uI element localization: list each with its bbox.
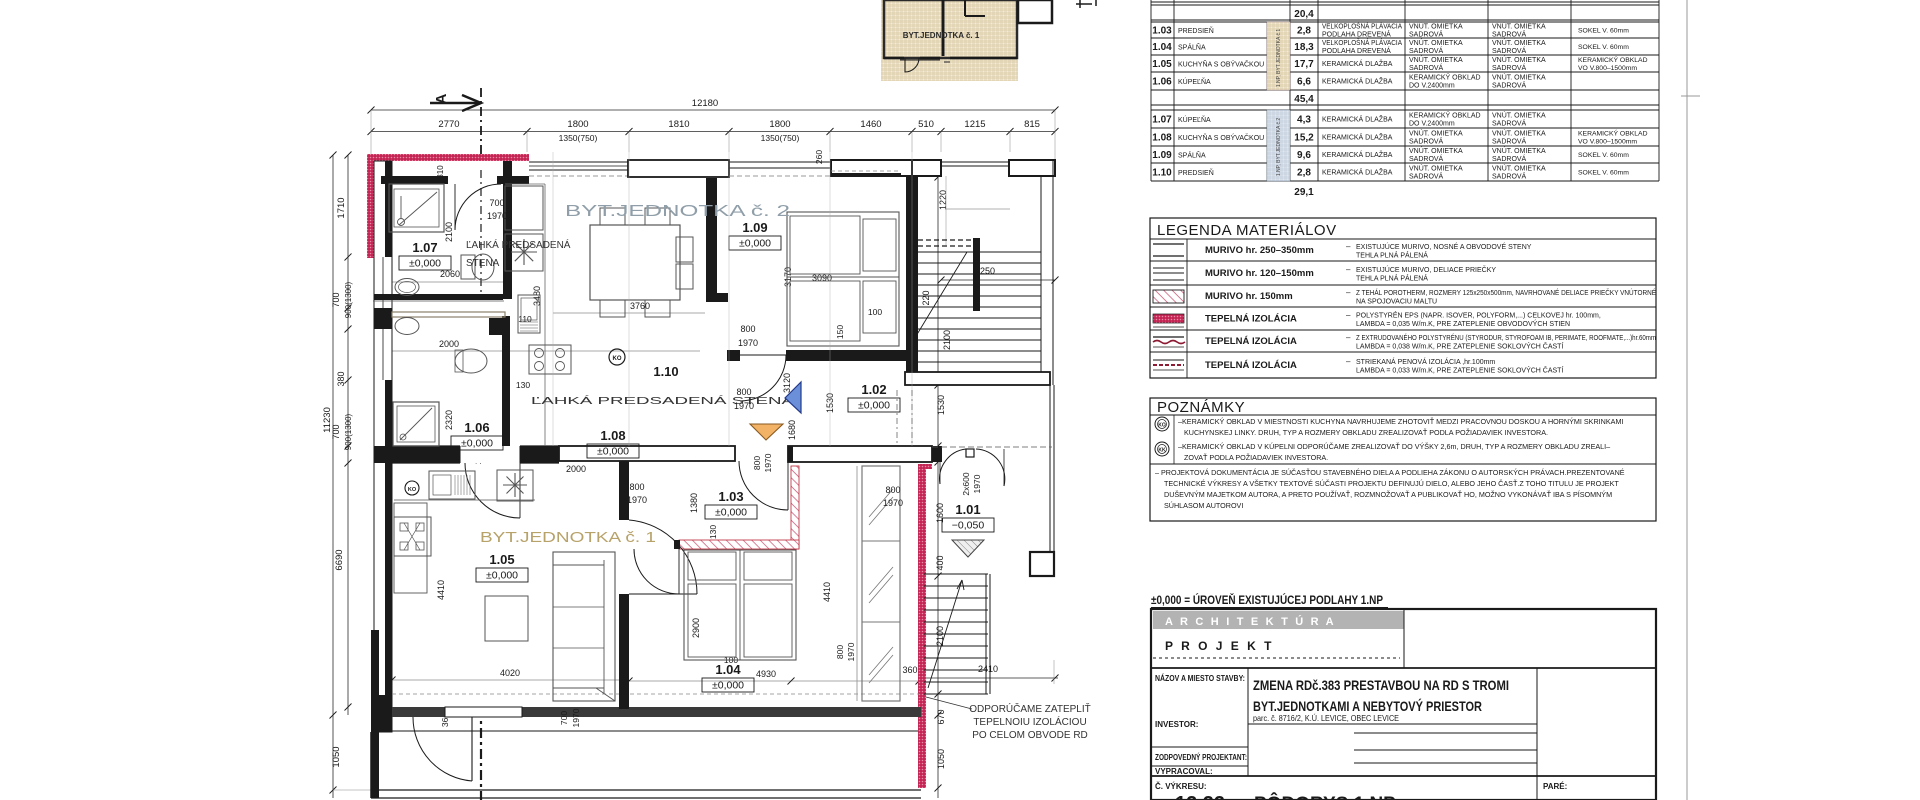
svg-text:510: 510 xyxy=(918,119,934,130)
svg-text:TEPELNÁ IZOLÁCIA: TEPELNÁ IZOLÁCIA xyxy=(1205,314,1297,325)
svg-text:1.07: 1.07 xyxy=(1152,115,1172,126)
svg-text:VELKOPLOŠNÁ PLÁVACIA: VELKOPLOŠNÁ PLÁVACIA xyxy=(1322,22,1402,31)
svg-text:2,8: 2,8 xyxy=(1297,26,1311,37)
svg-text:DO V.2400mm: DO V.2400mm xyxy=(1409,83,1455,90)
svg-text:KERAMICKÁ DLAŽBA: KERAMICKÁ DLAŽBA xyxy=(1322,77,1393,86)
svg-text:VNÚT. OMIETKA: VNÚT. OMIETKA xyxy=(1409,55,1463,64)
svg-text:ĽAHKÁ PREDSADENÁ STENA: ĽAHKÁ PREDSADENÁ STENA xyxy=(531,394,794,407)
svg-text:STENA: STENA xyxy=(466,258,500,269)
svg-text:VNÚT. OMIETKA: VNÚT. OMIETKA xyxy=(1409,129,1463,138)
svg-text:1.02: 1.02 xyxy=(861,382,886,397)
svg-text:SADROVÁ: SADROVÁ xyxy=(1492,119,1527,128)
svg-text:1460: 1460 xyxy=(860,119,881,130)
svg-text:SADROVÁ: SADROVÁ xyxy=(1492,137,1527,146)
svg-text:1215: 1215 xyxy=(964,119,985,130)
svg-text:800: 800 xyxy=(629,482,644,492)
svg-text:DO V.2400mm: DO V.2400mm xyxy=(1409,121,1455,128)
svg-text:2x600: 2x600 xyxy=(961,472,971,495)
svg-text:29,1: 29,1 xyxy=(1294,187,1314,198)
svg-text:SOKEL V. 60mm: SOKEL V. 60mm xyxy=(1578,28,1629,35)
svg-text:ZOVAŤ PODLA POŽIADAVIEK INVEST: ZOVAŤ PODLA POŽIADAVIEK INVESTORA. xyxy=(1184,453,1328,462)
svg-text:–KERAMICKÝ OBKLAD V MIESTNOSTI: –KERAMICKÝ OBKLAD V MIESTNOSTI KUCHYNA N… xyxy=(1178,417,1623,426)
svg-text:SADROVÁ: SADROVÁ xyxy=(1492,172,1527,181)
svg-text:1.10: 1.10 xyxy=(653,364,678,379)
svg-text:1970: 1970 xyxy=(571,708,581,727)
svg-text:TEHLA PLNÁ PÁLENÁ: TEHLA PLNÁ PÁLENÁ xyxy=(1356,274,1428,283)
svg-text:±0,000: ±0,000 xyxy=(461,438,493,450)
svg-text:LAMBDA = 0,033 W/m.K, PRE ZATE: LAMBDA = 0,033 W/m.K, PRE ZATEPLENIE SOK… xyxy=(1356,366,1563,375)
svg-text:POZNÁMKY: POZNÁMKY xyxy=(1157,399,1245,416)
svg-text:110: 110 xyxy=(518,314,532,324)
svg-text:NA SPOJOVACIU MALTU: NA SPOJOVACIU MALTU xyxy=(1356,299,1437,306)
svg-text:360: 360 xyxy=(902,665,917,675)
svg-text:2100: 2100 xyxy=(935,626,945,646)
svg-text:2770: 2770 xyxy=(438,119,459,130)
svg-text:800: 800 xyxy=(835,645,845,659)
svg-text:3760: 3760 xyxy=(630,301,650,311)
svg-text:– PROJEKTOVÁ DOKUMENTÁCIA JE S: – PROJEKTOVÁ DOKUMENTÁCIA JE SÚČASŤOU ST… xyxy=(1155,468,1625,477)
svg-text:2060: 2060 xyxy=(440,269,460,279)
svg-text:1.06: 1.06 xyxy=(464,420,489,435)
svg-text:±0,000: ±0,000 xyxy=(597,446,629,458)
svg-text:4410: 4410 xyxy=(822,582,832,602)
svg-text:±0,000: ±0,000 xyxy=(739,238,771,250)
svg-text:TECHNICKÉ VÝKRESY A VŠETKY TEX: TECHNICKÉ VÝKRESY A VŠETKY TEXTOVÉ SÚČAS… xyxy=(1164,479,1619,488)
svg-text:2320: 2320 xyxy=(444,410,454,430)
svg-text:±0,000: ±0,000 xyxy=(486,570,518,582)
svg-text:KERAMICKÝ OBKLAD: KERAMICKÝ OBKLAD xyxy=(1409,73,1481,82)
svg-text:1.01: 1.01 xyxy=(955,502,980,517)
svg-text:1.06: 1.06 xyxy=(1152,77,1172,88)
svg-text:−0,050: −0,050 xyxy=(952,520,985,532)
svg-text:TEHLA PLNÁ PÁLENÁ: TEHLA PLNÁ PÁLENÁ xyxy=(1356,251,1428,260)
svg-text:900(1300): 900(1300) xyxy=(344,413,353,450)
svg-text:KO: KO xyxy=(1158,423,1166,429)
svg-text:4,3: 4,3 xyxy=(1297,115,1311,126)
svg-text:KERAMICKÁ DLAŽBA: KERAMICKÁ DLAŽBA xyxy=(1322,133,1393,142)
svg-text:310: 310 xyxy=(436,165,445,179)
svg-text:1.NP, BYT.JEDNOTKA č.1: 1.NP, BYT.JEDNOTKA č.1 xyxy=(1276,29,1282,87)
svg-text:ODPORÚČAME ZATEPLIŤ: ODPORÚČAME ZATEPLIŤ xyxy=(969,702,1091,715)
svg-text:SADROVÁ: SADROVÁ xyxy=(1492,63,1527,72)
svg-text:VYPRACOVAL:: VYPRACOVAL: xyxy=(1155,767,1213,776)
svg-text:KERAMICKÁ DLAŽBA: KERAMICKÁ DLAŽBA xyxy=(1322,150,1393,159)
svg-text:SADROVÁ: SADROVÁ xyxy=(1492,81,1527,90)
svg-text:–: – xyxy=(1346,333,1351,342)
svg-text:1800: 1800 xyxy=(567,119,588,130)
svg-text:PODLAHA DREVENÁ: PODLAHA DREVENÁ xyxy=(1322,46,1391,55)
svg-text:PODLAHA DREVENÁ: PODLAHA DREVENÁ xyxy=(1322,30,1391,39)
svg-text:SPÁLŇA: SPÁLŇA xyxy=(1178,43,1206,52)
svg-text:1220: 1220 xyxy=(938,190,948,210)
svg-text:PREDSIEŇ: PREDSIEŇ xyxy=(1178,26,1214,35)
svg-text:2410: 2410 xyxy=(978,664,998,674)
svg-text:KERAMICKÁ DLAŽBA: KERAMICKÁ DLAŽBA xyxy=(1322,115,1393,124)
svg-text:±0,000: ±0,000 xyxy=(409,258,441,270)
svg-text:PÔDORYS 1.NP: PÔDORYS 1.NP xyxy=(1254,793,1396,800)
svg-text:±0,000: ±0,000 xyxy=(715,507,747,519)
svg-text:KO: KO xyxy=(613,356,622,362)
svg-text:KUCHYNSKEJ LINKY. DRUH, TYP A: KUCHYNSKEJ LINKY. DRUH, TYP A ROZMERY OB… xyxy=(1184,428,1548,437)
svg-text:ZMENA RDč.383 PRESTAVBOU NA RD: ZMENA RDč.383 PRESTAVBOU NA RD S TROMI xyxy=(1253,677,1509,693)
svg-text:1970: 1970 xyxy=(763,453,773,472)
svg-text:TEPELNÁ IZOLÁCIA: TEPELNÁ IZOLÁCIA xyxy=(1205,360,1297,371)
svg-text:SADROVÁ: SADROVÁ xyxy=(1409,154,1444,163)
svg-text:VNÚT. OMIETKA: VNÚT. OMIETKA xyxy=(1409,164,1463,173)
svg-text:–: – xyxy=(1346,311,1351,320)
svg-text:1380: 1380 xyxy=(689,493,699,513)
svg-text:PARÉ:: PARÉ: xyxy=(1543,782,1567,791)
svg-text:380: 380 xyxy=(336,371,346,386)
svg-text:MURIVO hr. 250–350mm: MURIVO hr. 250–350mm xyxy=(1205,245,1314,256)
svg-text:VNÚT. OMIETKA: VNÚT. OMIETKA xyxy=(1409,22,1463,31)
svg-text:BYT.JEDNOTKAMI A NEBYTOVÝ PRI: BYT.JEDNOTKAMI A NEBYTOVÝ PRIESTOR xyxy=(1253,697,1482,714)
svg-text:SADROVÁ: SADROVÁ xyxy=(1409,63,1444,72)
svg-text:1.NP, BYT.JEDNOTKA č.2: 1.NP, BYT.JEDNOTKA č.2 xyxy=(1276,118,1282,176)
svg-text:POLYSTYRÉN EPS (NAPR. ISOVER,: POLYSTYRÉN EPS (NAPR. ISOVER, POLYFORM,.… xyxy=(1356,311,1601,320)
svg-text:PREDSIEŇ: PREDSIEŇ xyxy=(1178,168,1214,177)
svg-text:800: 800 xyxy=(736,387,751,397)
svg-text:130: 130 xyxy=(516,380,530,390)
svg-text:SADROVÁ: SADROVÁ xyxy=(1409,172,1444,181)
svg-text:1.08: 1.08 xyxy=(1152,133,1172,144)
svg-text:INVESTOR:: INVESTOR: xyxy=(1155,720,1198,729)
svg-text:18,3: 18,3 xyxy=(1294,42,1314,53)
svg-text:1710: 1710 xyxy=(336,197,347,218)
svg-text:700: 700 xyxy=(331,424,341,439)
svg-text:3090: 3090 xyxy=(812,273,832,283)
svg-text:900(1300): 900(1300) xyxy=(344,281,353,318)
svg-text:6,6: 6,6 xyxy=(1297,77,1311,88)
svg-text:SADROVÁ: SADROVÁ xyxy=(1409,30,1444,39)
svg-text:700: 700 xyxy=(559,711,569,725)
svg-text:SADROVÁ: SADROVÁ xyxy=(1409,46,1444,55)
svg-text:1350(750): 1350(750) xyxy=(761,133,800,143)
svg-text:1970: 1970 xyxy=(846,642,856,661)
svg-text:800: 800 xyxy=(752,456,762,470)
svg-text:BYT.JEDNOTKA č. 2: BYT.JEDNOTKA č. 2 xyxy=(565,203,790,220)
svg-text:SADROVÁ: SADROVÁ xyxy=(1492,30,1527,39)
svg-text:700: 700 xyxy=(331,292,341,307)
svg-text:VNÚT. OMIETKA: VNÚT. OMIETKA xyxy=(1492,73,1546,82)
svg-text:220: 220 xyxy=(921,290,931,305)
svg-text:1.04: 1.04 xyxy=(1152,42,1172,53)
svg-text:800: 800 xyxy=(740,324,755,334)
svg-text:1050: 1050 xyxy=(936,749,946,769)
svg-text:LEGENDA MATERIÁLOV: LEGENDA MATERIÁLOV xyxy=(1157,222,1337,239)
svg-text:SÚHLASOM AUTOROVI: SÚHLASOM AUTOROVI xyxy=(1164,501,1243,510)
svg-text:1.05: 1.05 xyxy=(489,552,514,567)
svg-text:2000: 2000 xyxy=(566,464,586,474)
svg-text:NÁZOV A MIESTO STAVBY:: NÁZOV A MIESTO STAVBY: xyxy=(1155,674,1245,683)
svg-text:1600: 1600 xyxy=(935,503,945,523)
svg-text:TEPELNOIU IZOLÁCIOU: TEPELNOIU IZOLÁCIOU xyxy=(973,715,1086,728)
svg-text:KUCHYŇA S OBÝVAČKOU: KUCHYŇA S OBÝVAČKOU xyxy=(1178,133,1264,142)
svg-text:400: 400 xyxy=(935,555,945,570)
svg-text:KERAMICKÝ OBKLAD: KERAMICKÝ OBKLAD xyxy=(1578,129,1648,138)
svg-text:SADROVÁ: SADROVÁ xyxy=(1409,137,1444,146)
svg-text:KÚPEĽŇA: KÚPEĽŇA xyxy=(1178,115,1211,124)
svg-text:parc. č. 8716/2, K.Ú. LEVICE,: parc. č. 8716/2, K.Ú. LEVICE, OBEC LEVIC… xyxy=(1253,713,1399,723)
svg-text:1970: 1970 xyxy=(738,338,758,348)
svg-text:SPÁLŇA: SPÁLŇA xyxy=(1178,151,1206,160)
svg-text:2,8: 2,8 xyxy=(1297,168,1311,179)
svg-text:9,6: 9,6 xyxy=(1297,150,1311,161)
svg-text:1970: 1970 xyxy=(627,495,647,505)
svg-text:VNÚT. OMIETKA: VNÚT. OMIETKA xyxy=(1492,55,1546,64)
svg-text:130: 130 xyxy=(708,525,718,539)
svg-text:4410: 4410 xyxy=(436,580,446,600)
svg-text:17,7: 17,7 xyxy=(1294,59,1314,70)
svg-text:KERAMICKÁ DLAŽBA: KERAMICKÁ DLAŽBA xyxy=(1322,168,1393,177)
svg-text:VNÚT. OMIETKA: VNÚT. OMIETKA xyxy=(1492,164,1546,173)
svg-text:815: 815 xyxy=(1024,119,1040,130)
svg-text:20,4: 20,4 xyxy=(1294,9,1314,20)
svg-text:VNÚT. OMIETKA: VNÚT. OMIETKA xyxy=(1492,111,1546,120)
svg-text:1.09: 1.09 xyxy=(1152,150,1172,161)
svg-text:1.03: 1.03 xyxy=(718,489,743,504)
svg-text:KO: KO xyxy=(408,487,417,493)
svg-text:1350(750): 1350(750) xyxy=(559,133,598,143)
svg-text:1.04: 1.04 xyxy=(715,662,741,677)
svg-text:1.10: 1.10 xyxy=(1152,168,1172,179)
svg-text:2000: 2000 xyxy=(439,339,459,349)
svg-text:VNÚT. OMIETKA: VNÚT. OMIETKA xyxy=(1492,38,1546,47)
svg-text:–KERAMICKÝ OBKLAD V KÚPELNI OD: –KERAMICKÝ OBKLAD V KÚPELNI ODPORÚČAME Z… xyxy=(1178,442,1610,451)
svg-text:1530: 1530 xyxy=(936,395,946,415)
svg-text:EXISTUJÚCE MURIVO, NOSNÉ A OBV: EXISTUJÚCE MURIVO, NOSNÉ A OBVODOVÉ STEN… xyxy=(1356,242,1532,251)
svg-text:1800: 1800 xyxy=(769,119,790,130)
svg-text:100: 100 xyxy=(868,307,882,317)
svg-text:1680: 1680 xyxy=(787,420,797,440)
svg-text:LAMBDA = 0,038 W/m.K, PRE ZATE: LAMBDA = 0,038 W/m.K, PRE ZATEPLENIE SOK… xyxy=(1356,342,1563,351)
svg-text:±0,000: ±0,000 xyxy=(712,680,744,692)
svg-text:12.22: 12.22 xyxy=(1175,793,1225,800)
svg-text:1970: 1970 xyxy=(487,211,507,221)
svg-text:EXISTUJÚCE MURIVO, DELIACE PRI: EXISTUJÚCE MURIVO, DELIACE PRIEČKY xyxy=(1356,265,1496,274)
svg-text:VNÚT. OMIETKA: VNÚT. OMIETKA xyxy=(1492,22,1546,31)
svg-text:3120: 3120 xyxy=(782,373,792,393)
svg-text:KK: KK xyxy=(1158,448,1166,454)
svg-text:1.08: 1.08 xyxy=(600,428,625,443)
svg-text:±0,000: ±0,000 xyxy=(858,400,890,412)
svg-text:BYT.JEDNOTKA č. 1: BYT.JEDNOTKA č. 1 xyxy=(903,31,980,40)
svg-text:2900: 2900 xyxy=(691,618,701,638)
svg-text:MURIVO hr. 150mm: MURIVO hr. 150mm xyxy=(1205,291,1293,302)
svg-text:700: 700 xyxy=(489,198,504,208)
svg-text:–: – xyxy=(1346,357,1351,366)
svg-text:ĽAHKÁ PREDSADENÁ: ĽAHKÁ PREDSADENÁ xyxy=(466,238,571,251)
svg-text:±0,000 = ÚROVEŇ EXISTUJÚCEJ PO: ±0,000 = ÚROVEŇ EXISTUJÚCEJ PODLAHY 1.NP xyxy=(1151,594,1383,607)
svg-text:KERAMICKÝ OBKLAD: KERAMICKÝ OBKLAD xyxy=(1409,111,1481,120)
svg-text:1.05: 1.05 xyxy=(1152,59,1172,70)
svg-text:SOKEL V. 60mm: SOKEL V. 60mm xyxy=(1578,152,1629,159)
svg-text:1.07: 1.07 xyxy=(412,240,437,255)
svg-text:150: 150 xyxy=(835,325,845,339)
svg-text:4930: 4930 xyxy=(756,669,776,679)
svg-text:VELKOPLOŠNÁ PLÁVACIA: VELKOPLOŠNÁ PLÁVACIA xyxy=(1322,38,1402,47)
svg-text:VNÚT. OMIETKA: VNÚT. OMIETKA xyxy=(1492,146,1546,155)
svg-text:1970: 1970 xyxy=(734,401,754,411)
svg-text:4020: 4020 xyxy=(500,668,520,678)
svg-text:1970: 1970 xyxy=(883,498,903,508)
svg-text:BYT.JEDNOTKA č. 1: BYT.JEDNOTKA č. 1 xyxy=(480,529,656,546)
svg-text:KUCHYŇA S OBÝVAČKOU: KUCHYŇA S OBÝVAČKOU xyxy=(1178,60,1264,69)
svg-text:1.09: 1.09 xyxy=(742,220,767,235)
svg-text:VNÚT. OMIETKA: VNÚT. OMIETKA xyxy=(1492,129,1546,138)
svg-text:VO V.800–1500mm: VO V.800–1500mm xyxy=(1578,65,1637,72)
svg-text:6690: 6690 xyxy=(334,549,345,570)
svg-text:VNÚT. OMIETKA: VNÚT. OMIETKA xyxy=(1409,38,1463,47)
svg-text:Z EXTRUDOVANÉHO POLYSTYRÉNU (S: Z EXTRUDOVANÉHO POLYSTYRÉNU (STYRODUR, S… xyxy=(1356,333,1656,342)
svg-text:DUŠEVNÝM MAJETKOM AUTORA, A PR: DUŠEVNÝM MAJETKOM AUTORA, A PRETO POUŽÍV… xyxy=(1164,490,1612,499)
svg-text:SOKEL V. 60mm: SOKEL V. 60mm xyxy=(1578,44,1629,51)
svg-text:670: 670 xyxy=(936,709,946,724)
svg-text:KERAMICKÁ DLAŽBA: KERAMICKÁ DLAŽBA xyxy=(1322,59,1393,68)
svg-text:15,2: 15,2 xyxy=(1294,133,1314,144)
svg-text:VO V.800–1500mm: VO V.800–1500mm xyxy=(1578,139,1637,146)
svg-text:SOKEL V. 60mm: SOKEL V. 60mm xyxy=(1578,170,1629,177)
svg-text:1050: 1050 xyxy=(331,746,342,767)
svg-text:KERAMICKÝ OBKLAD: KERAMICKÝ OBKLAD xyxy=(1578,55,1648,64)
svg-text:45,4: 45,4 xyxy=(1294,94,1314,105)
svg-text:2100: 2100 xyxy=(444,222,454,242)
svg-text:MURIVO hr. 120–150mm: MURIVO hr. 120–150mm xyxy=(1205,268,1314,279)
svg-text:12180: 12180 xyxy=(692,98,718,109)
svg-text:KÚPEĽŇA: KÚPEĽŇA xyxy=(1178,77,1211,86)
svg-text:PO CELOM OBVODE RD: PO CELOM OBVODE RD xyxy=(972,730,1088,741)
svg-text:1.03: 1.03 xyxy=(1152,26,1172,37)
svg-text:SADROVÁ: SADROVÁ xyxy=(1492,154,1527,163)
svg-text:Č. VÝKRESU:: Č. VÝKRESU: xyxy=(1155,782,1207,791)
svg-text:VNÚT. OMIETKA: VNÚT. OMIETKA xyxy=(1409,146,1463,155)
svg-text:–: – xyxy=(1346,242,1351,251)
svg-text:800: 800 xyxy=(885,485,900,495)
svg-text:–: – xyxy=(1346,288,1351,297)
svg-text:P R O J E K T: P R O J E K T xyxy=(1165,639,1274,653)
svg-text:A R C H I T E K T Ú R A: A R C H I T E K T Ú R A xyxy=(1165,615,1336,628)
svg-text:ZODPOVEDNÝ PROJEKTANT:: ZODPOVEDNÝ PROJEKTANT: xyxy=(1155,753,1247,762)
svg-text:STRIEKANÁ PENOVÁ IZOLÁCIA ,hr.: STRIEKANÁ PENOVÁ IZOLÁCIA ,hr.100mm xyxy=(1356,357,1495,366)
svg-text:TEPELNÁ IZOLÁCIA: TEPELNÁ IZOLÁCIA xyxy=(1205,336,1297,347)
svg-text:1970: 1970 xyxy=(972,474,982,493)
svg-text:Z TEHÁL POROTHERM, ROZMERY 125: Z TEHÁL POROTHERM, ROZMERY 125x250x500mm… xyxy=(1356,288,1656,297)
svg-text:1810: 1810 xyxy=(668,119,689,130)
svg-text:–: – xyxy=(1346,265,1351,274)
svg-text:LAMBDA = 0,035 W/m.K, PRE ZATE: LAMBDA = 0,035 W/m.K, PRE ZATEPLENIE OBV… xyxy=(1356,319,1570,328)
svg-text:SADROVÁ: SADROVÁ xyxy=(1492,46,1527,55)
